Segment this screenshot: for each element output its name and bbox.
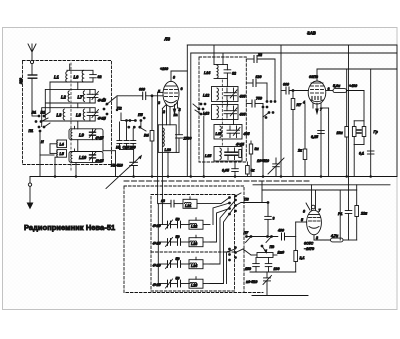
capacitor 82 — [224, 65, 231, 87]
coil L21 — [183, 197, 221, 209]
svg-text:82: 82 — [98, 75, 102, 79]
svg-text:3: 3 — [158, 101, 160, 105]
capacitor 150 — [253, 258, 260, 273]
svg-text:2,1: 2,1 — [299, 256, 305, 260]
wire IF interstage — [226, 101, 228, 107]
svg-text:10÷510: 10÷510 — [257, 159, 269, 163]
coil L22 — [189, 218, 210, 230]
svg-text:L6: L6 — [74, 75, 80, 80]
svg-text:R4: R4 — [144, 134, 149, 138]
wire grid drop to turret — [158, 92, 164, 203]
svg-text:+200: +200 — [160, 67, 168, 71]
box L16 — [158, 125, 176, 153]
coil L25 — [189, 277, 210, 289]
svg-text:4÷10: 4÷10 — [152, 224, 161, 228]
tube Л4 — [306, 185, 321, 235]
svg-text:L15: L15 — [205, 154, 212, 158]
trimmer capacitor 4÷15 — [92, 110, 99, 118]
coil L2 — [68, 91, 69, 102]
capacitor 750 — [246, 100, 263, 107]
box coil L9 — [69, 129, 103, 140]
box IF row L13 — [212, 105, 239, 120]
svg-text:690: 690 — [139, 87, 145, 91]
svg-text:8: 8 — [303, 210, 305, 214]
resistor 0,1 AF — [277, 222, 298, 272]
svg-text:L16: L16 — [165, 148, 172, 152]
svg-text:L2: L2 — [61, 95, 67, 100]
capacitor 82 — [90, 75, 97, 78]
wire long drop output — [348, 45, 350, 211]
capacitor 390 — [28, 75, 37, 115]
switch П5 — [120, 113, 147, 141]
svg-text:L25: L25 — [191, 284, 198, 288]
wire RF box output — [103, 140, 116, 177]
coil L14 — [214, 65, 227, 79]
wire drop rail2 to IF — [222, 53, 224, 65]
wire fan L22 — [213, 203, 230, 225]
wire bottom return — [252, 295, 308, 297]
capacitor 50 — [178, 261, 190, 268]
svg-text:L12: L12 — [203, 94, 209, 98]
capacitor 0,05 — [232, 161, 239, 177]
svg-text:L8: L8 — [76, 113, 82, 118]
svg-text:50: 50 — [176, 277, 180, 281]
wire L16 to bus — [167, 152, 169, 176]
coil L4 — [57, 140, 67, 148]
wire to grid Л1 — [117, 95, 143, 97]
dashed stub — [244, 292, 263, 294]
switch contacts П6 — [229, 193, 269, 215]
capacitor 0,25 — [318, 131, 325, 134]
svg-text:0,05: 0,05 — [222, 169, 230, 173]
svg-text:4÷10: 4÷10 — [152, 264, 161, 268]
coil L8 — [83, 109, 84, 120]
svg-text:1м0: 1м0 — [278, 251, 285, 255]
svg-text:465: 465 — [243, 132, 251, 136]
svg-text:6ЗП6: 6ЗП6 — [309, 75, 319, 79]
coil L24 — [189, 257, 210, 269]
switch contacts П8 (AF) — [266, 236, 272, 243]
svg-text:В2: В2 — [41, 111, 46, 115]
coil L23 — [189, 235, 210, 247]
capacitor (row2) — [87, 94, 93, 97]
dashed divider — [151, 251, 235, 253]
box coil L10 — [69, 152, 103, 163]
svg-text:50: 50 — [176, 235, 180, 239]
svg-text:н0·510: н0·510 — [246, 280, 257, 284]
trimmer capacitor 4÷15 (L9) — [89, 129, 96, 140]
antenna — [28, 44, 36, 75]
svg-text:465: 465 — [239, 95, 247, 99]
svg-text:50: 50 — [176, 218, 180, 222]
svg-text:750: 750 — [256, 97, 262, 101]
capacitor 690 (IF coupling) — [281, 87, 308, 94]
wire row3 loop — [42, 103, 95, 127]
resistor 22н — [355, 185, 359, 240]
svg-text:П2: П2 — [117, 107, 122, 111]
wire heater drop — [339, 190, 341, 240]
main ground bus — [30, 176, 397, 178]
svg-text:2к: 2к — [297, 149, 302, 153]
capacitor 130 — [246, 80, 267, 102]
svg-text:10н: 10н — [337, 131, 344, 135]
capacitor 100 — [265, 258, 272, 273]
svg-text:~1670: ~1670 — [304, 247, 314, 251]
svg-text:L9: L9 — [79, 133, 85, 138]
capacitor Н1·510 — [106, 156, 141, 189]
capacitor Н1 — [117, 141, 122, 150]
wire pin5 — [296, 221, 307, 223]
svg-text:П8: П8 — [270, 245, 275, 249]
resistor 6к — [246, 162, 250, 177]
capacitor н0·510 — [263, 276, 272, 296]
capacitor 2700 — [176, 127, 183, 152]
svg-text:8: 8 — [173, 76, 175, 80]
svg-text:4÷15: 4÷15 — [235, 142, 245, 146]
capacitor 690 — [143, 92, 164, 100]
svg-text:L1: L1 — [54, 75, 60, 80]
tuning core dashed line — [70, 63, 72, 171]
coil L7 — [83, 91, 84, 102]
switch contacts П7 — [229, 247, 251, 261]
dashed box turret — [151, 195, 235, 292]
wire anode Л2 — [317, 68, 397, 70]
svg-text:L14: L14 — [204, 71, 210, 75]
wire cathode Л4 — [313, 235, 315, 240]
wire turret feed — [157, 204, 159, 284]
capacitor 50 — [178, 239, 190, 246]
wire drop rail1 — [186, 45, 188, 177]
capacitor С15 — [124, 141, 129, 150]
coil L3 — [63, 109, 64, 120]
svg-text:5,0н: 5,0н — [333, 84, 341, 88]
svg-text:100: 100 — [274, 267, 280, 271]
box IF row L12 — [212, 87, 239, 102]
wire row1 loop — [50, 64, 93, 112]
wire drop to L14 — [213, 45, 215, 65]
dashed box IF unit — [199, 57, 246, 162]
resistor R7 — [291, 90, 295, 177]
coil L6 — [82, 70, 83, 82]
svg-text:L7: L7 — [78, 95, 84, 100]
box IF row L17 — [214, 125, 242, 140]
svg-text:4÷10: 4÷10 — [152, 242, 161, 246]
resistor 5,0н — [326, 89, 364, 93]
band switch П1 — [32, 112, 54, 177]
svg-text:В1: В1 — [32, 111, 37, 115]
wire tone bottom — [250, 272, 277, 278]
svg-text:ЛЗ: ЛЗ — [164, 37, 171, 42]
wire fan L24 — [210, 200, 236, 264]
capacitor 22 — [246, 56, 275, 63]
svg-text:4÷15: 4÷15 — [95, 159, 105, 163]
resistor 8н — [249, 141, 252, 177]
wire row2 loop — [45, 82, 95, 118]
dashed box band unit — [124, 186, 244, 293]
capacitor 50 — [178, 221, 190, 228]
wire coil ground legs — [55, 157, 76, 176]
tube Л1 — [163, 71, 179, 107]
dashed chassis line — [124, 180, 310, 182]
wire right edge drop — [396, 45, 398, 177]
switch contacts П3 — [193, 103, 206, 176]
capacitor Р1 — [345, 211, 352, 241]
row trimmer 4÷10 — [158, 260, 176, 269]
svg-text:22н: 22н — [360, 212, 368, 216]
svg-text:L17: L17 — [216, 132, 223, 136]
switch contacts П4 — [262, 59, 276, 177]
svg-text:200: 200 — [129, 145, 136, 149]
svg-text:Радиоприемник Нева-51: Радиоприемник Нева-51 — [24, 223, 115, 232]
wire supply rail 2 — [191, 52, 397, 54]
dashed box RF coils unit — [23, 61, 112, 165]
wire drop rail2 — [190, 53, 192, 177]
svg-text:L21: L21 — [185, 204, 191, 208]
svg-text:L10: L10 — [79, 155, 87, 160]
wire fan L25 — [210, 206, 236, 284]
row trimmer 4÷10 — [158, 220, 176, 229]
resistor 10н — [345, 69, 349, 177]
wire pin7 drop — [321, 108, 329, 177]
trimmer capacitor 0÷50 — [268, 158, 284, 177]
wire cathode drop to turret — [162, 105, 166, 225]
resistor pair 8н (tone) — [352, 91, 365, 177]
svg-text:L24: L24 — [191, 264, 197, 268]
svg-text:Н: Н — [41, 140, 44, 144]
wire anode feed — [171, 70, 187, 72]
coil L5 — [57, 150, 67, 158]
svg-text:50: 50 — [176, 257, 180, 261]
ground — [27, 177, 32, 209]
svg-text:к3: к3 — [161, 199, 165, 203]
band switch П2 — [103, 96, 118, 120]
svg-text:3: 3 — [316, 236, 318, 240]
potentiometer 1м0 — [251, 245, 277, 257]
tube Л2 — [308, 69, 326, 104]
wire node — [120, 150, 134, 163]
wire IF interstage 2 — [233, 119, 235, 125]
svg-text:L23: L23 — [191, 242, 197, 246]
wire fan L23 — [210, 209, 230, 243]
svg-text:400: 400 — [277, 229, 284, 233]
capacitor 3 — [262, 181, 271, 237]
svg-text:465: 465 — [239, 113, 247, 117]
wires cathode Л1 — [167, 102, 180, 127]
svg-text:П1: П1 — [29, 129, 34, 133]
wire AF line — [247, 236, 278, 238]
svg-text:3: 3 — [273, 217, 275, 221]
svg-text:22: 22 — [257, 53, 262, 57]
heater rail 1 — [253, 184, 390, 186]
svg-text:6С5С: 6С5С — [304, 242, 314, 246]
svg-text:130: 130 — [256, 75, 262, 79]
svg-text:0,25: 0,25 — [311, 135, 319, 139]
wire fan lower — [227, 249, 236, 284]
svg-text:L3: L3 — [57, 113, 63, 118]
svg-text:0,1: 0,1 — [359, 152, 364, 156]
svg-text:4,7н: 4,7н — [330, 234, 339, 238]
svg-text:ЗАВ: ЗАВ — [307, 31, 316, 36]
svg-text:Н1·510: Н1·510 — [111, 164, 123, 168]
wire supply rail 1 — [187, 44, 397, 46]
svg-text:Н1: Н1 — [116, 145, 121, 149]
svg-text:4÷15: 4÷15 — [152, 283, 162, 287]
coil L1 — [66, 72, 67, 83]
trimmer capacitor 4÷15 — [92, 92, 99, 100]
row1 capacitor к3 — [158, 200, 183, 207]
wire speaker drop — [370, 69, 372, 177]
resistor R4 — [150, 95, 154, 177]
svg-text:L22: L22 — [191, 225, 197, 229]
capacitor 50 — [178, 280, 190, 287]
box IF row L15 — [214, 147, 242, 162]
resistor 4,7н — [314, 238, 357, 242]
switch contacts П7 (AF) — [246, 236, 252, 243]
wire fan row1 — [221, 198, 230, 204]
trimmer capacitor 4÷15 (L10) — [89, 152, 96, 163]
svg-text:L4: L4 — [60, 143, 64, 147]
row trimmer 4÷15 — [158, 279, 176, 288]
svg-text:+400: +400 — [349, 84, 357, 88]
capacitor 200 — [131, 141, 136, 150]
svg-text:150: 150 — [245, 267, 251, 271]
svg-text:82: 82 — [232, 72, 236, 76]
wire long drop AVC — [280, 45, 282, 177]
capacitor (row3) — [87, 112, 93, 115]
wire L4 L5 taps — [50, 144, 57, 154]
capacitor 400 — [282, 233, 296, 240]
row trimmer 4÷10 — [158, 238, 176, 247]
resistor 2к (cathode Л2) — [303, 104, 307, 177]
capacitor 0,1 — [367, 151, 374, 154]
wire inter-row connector — [75, 121, 78, 152]
IF core dashed line — [221, 80, 223, 146]
wire cathode Л2 — [313, 103, 321, 177]
svg-text:6к: 6к — [251, 169, 255, 173]
junction dots bus — [54, 176, 371, 178]
svg-text:690: 690 — [283, 83, 289, 87]
heater rail 2 — [262, 189, 357, 191]
